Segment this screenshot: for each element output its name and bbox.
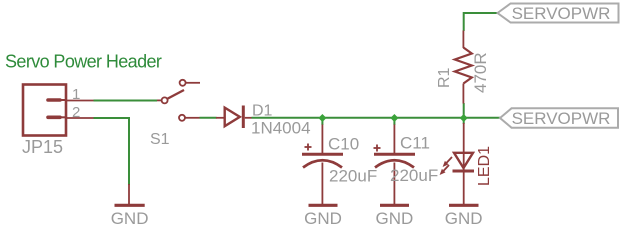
ground under LED1: bar xyxy=(449,204,479,207)
capacitor C10 stem upper xyxy=(321,125,323,154)
junction at R1/LED1 xyxy=(460,114,468,122)
resistor R1 bottom pin xyxy=(462,84,464,104)
svg-text:D1: D1 xyxy=(252,103,273,120)
svg-text:C10: C10 xyxy=(328,135,359,154)
capacitor C11 bottom curved plate xyxy=(375,160,414,167)
capacitor C10 plus sign xyxy=(305,146,312,148)
svg-text:GND: GND xyxy=(304,209,342,228)
svg-text:220uF: 220uF xyxy=(329,167,377,186)
ground under C11: bar xyxy=(380,204,409,207)
svg-text:Servo Power Header: Servo Power Header xyxy=(5,52,162,72)
svg-text:2: 2 xyxy=(72,104,80,121)
svg-text:1N4004: 1N4004 xyxy=(251,119,311,138)
svg-text:JP15: JP15 xyxy=(22,137,63,157)
ground under JP15: pin xyxy=(128,184,130,205)
wire pin2 JP15 to GND xyxy=(94,118,130,185)
svg-text:SERVOPWR: SERVOPWR xyxy=(512,109,611,128)
junction at C11 xyxy=(390,114,398,122)
capacitor C11 top plate xyxy=(374,153,415,156)
svg-text:GND: GND xyxy=(376,209,414,228)
diode D1 anode pin xyxy=(216,117,225,119)
junction at C10 xyxy=(318,114,326,122)
capacitor C11 stem upper xyxy=(393,125,395,154)
LED1 light arrow 2 xyxy=(443,165,449,172)
diode D1 cathode pin xyxy=(245,117,252,119)
switch S1 common pin stub xyxy=(157,99,162,101)
LED1 triangle xyxy=(454,153,473,168)
svg-text:S1: S1 xyxy=(150,131,170,148)
wire stub LED1 xyxy=(463,118,465,124)
svg-text:LED1: LED1 xyxy=(476,146,493,186)
capacitor C11 stem lower xyxy=(393,163,395,206)
capacitor C11 plus sign xyxy=(374,147,381,149)
ground under JP15: bar xyxy=(115,204,145,207)
resistor R1 zigzag xyxy=(455,48,472,84)
wire S1 to D1 anode xyxy=(200,117,217,119)
switch S1 upper throw stub xyxy=(186,82,200,84)
svg-text:GND: GND xyxy=(111,209,149,228)
LED1 cathode bar xyxy=(453,170,475,173)
switch S1 lower throw stub xyxy=(185,117,199,119)
ground under C10: bar xyxy=(309,204,338,207)
svg-text:R1: R1 xyxy=(436,67,453,88)
net flag SERVOPWR (bottom) xyxy=(500,108,618,127)
wire main bus D1 cathode to SERVOPWR flag xyxy=(252,117,501,119)
diode D1 triangle xyxy=(225,108,240,127)
wire R1 bottom to bus xyxy=(463,103,465,118)
wire pin1 JP15 to S1 xyxy=(94,100,158,102)
svg-text:GND: GND xyxy=(445,209,483,228)
LED1 light arrow 1 xyxy=(446,157,452,164)
net flag SERVOPWR (top) xyxy=(498,4,619,23)
capacitor C10 stem lower xyxy=(321,163,323,206)
diode D1 cathode bar xyxy=(242,106,245,129)
wire stub C10 xyxy=(321,118,323,125)
capacitor C10 top plate xyxy=(302,153,343,156)
svg-text:1: 1 xyxy=(72,86,80,103)
switch S1 upper throw contact xyxy=(180,80,186,86)
svg-text:220uF: 220uF xyxy=(390,166,438,185)
svg-text:C11: C11 xyxy=(400,134,430,153)
switch S1 lower throw contact xyxy=(179,115,185,121)
switch S1 lever xyxy=(165,90,184,100)
wire stub C11 xyxy=(393,118,395,125)
switch S1 common contact xyxy=(162,97,168,103)
connector JP15 body xyxy=(23,85,66,136)
svg-text:470R: 470R xyxy=(471,52,490,93)
pin 2 of JP15 xyxy=(48,116,60,120)
wire top SERVOPWR to R1 xyxy=(464,13,498,31)
svg-text:SERVOPWR: SERVOPWR xyxy=(512,4,611,23)
capacitor C10 bottom curved plate xyxy=(303,160,342,167)
LED1 stem lower xyxy=(463,153,465,205)
pin 1 of JP15 xyxy=(48,98,60,102)
LED1 stem upper xyxy=(463,123,465,153)
resistor R1 top pin xyxy=(462,31,464,49)
